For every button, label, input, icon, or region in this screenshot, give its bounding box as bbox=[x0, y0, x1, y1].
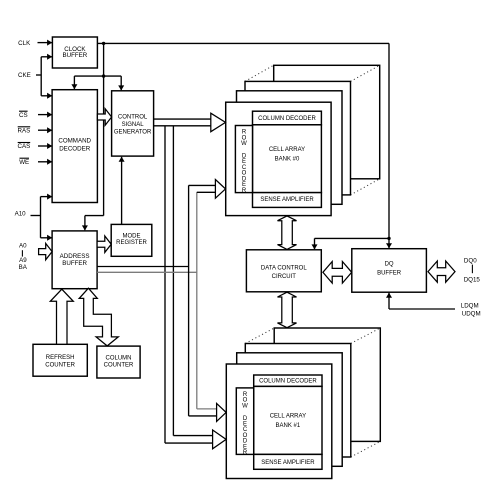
CLK wire bbox=[38, 42, 53, 44]
command decoder to CSG open arrow bbox=[97, 109, 111, 125]
svg-text:SENSE AMPLIFIER: SENSE AMPLIFIER bbox=[261, 460, 315, 466]
clock branch wire to command decoder and CSG bbox=[74, 75, 121, 77]
DQ buffer box bbox=[352, 249, 427, 293]
row decoder bank #1 bbox=[236, 388, 253, 455]
svg-text:BANK #0: BANK #0 bbox=[275, 157, 300, 163]
svg-text:REGISTER: REGISTER bbox=[116, 240, 147, 246]
svg-text:R: R bbox=[243, 450, 248, 456]
svg-text:DECODER: DECODER bbox=[59, 146, 90, 153]
clock vertical wire bbox=[103, 43, 105, 215]
data control circuit to DQ buffer hollow double arrow bbox=[323, 262, 352, 284]
svg-text:CELL ARRAY: CELL ARRAY bbox=[270, 414, 306, 420]
svg-text:RAS: RAS bbox=[18, 128, 31, 135]
svg-text:A0: A0 bbox=[19, 242, 27, 249]
svg-text:UDQM: UDQM bbox=[462, 310, 481, 317]
svg-text:BUFFER: BUFFER bbox=[63, 52, 88, 59]
junction dot clock branch bbox=[102, 74, 105, 77]
clock buffer box bbox=[52, 37, 97, 68]
svg-text:CAS: CAS bbox=[18, 143, 31, 150]
svg-text:W: W bbox=[242, 403, 248, 409]
mode register to CSG wire bbox=[121, 157, 123, 225]
clock net wire from clock buffer bbox=[97, 42, 389, 44]
address bus vertical bbox=[188, 185, 190, 416]
svg-text:DQ0: DQ0 bbox=[464, 257, 477, 264]
svg-text:SIGNAL: SIGNAL bbox=[122, 122, 145, 128]
refresh counter box bbox=[33, 344, 87, 376]
svg-text:CLK: CLK bbox=[18, 40, 31, 47]
cell array bank #1 stack layer 3 bbox=[245, 344, 350, 458]
column counter box bbox=[97, 346, 140, 378]
dotted 3D edge bank0 top-left bbox=[245, 65, 274, 81]
svg-text:COMMAND: COMMAND bbox=[58, 138, 91, 145]
svg-text:CS: CS bbox=[19, 112, 28, 119]
svg-text:CONTROL: CONTROL bbox=[118, 115, 148, 121]
svg-text:A9: A9 bbox=[19, 257, 27, 264]
cell array bank #1 bbox=[254, 386, 322, 454]
DQ buffer to DQ pins hollow double arrow bbox=[428, 261, 455, 282]
svg-text:COUNTER: COUNTER bbox=[45, 362, 75, 368]
CAS wire bbox=[38, 145, 52, 147]
svg-text:WE: WE bbox=[19, 159, 29, 166]
column decoder bank #1 bbox=[254, 375, 322, 386]
address buffer to column counter hollow arrow path bbox=[79, 288, 118, 346]
svg-text:GENERATOR: GENERATOR bbox=[114, 130, 152, 136]
svg-text:R: R bbox=[242, 188, 247, 194]
svg-text:W: W bbox=[241, 141, 247, 147]
address buffer box bbox=[52, 231, 97, 289]
cell array bank #0 bbox=[253, 125, 322, 193]
data control circuit to bank1 hollow double arrow bbox=[278, 292, 297, 328]
dotted 3D edge bank0 bottom-right bbox=[351, 179, 380, 195]
junction dot DQ clock node bbox=[387, 237, 390, 240]
refresh counter to address buffer hollow arrow bbox=[50, 289, 73, 344]
CKE wire bbox=[36, 74, 41, 76]
clock branch wire to data control circuit bbox=[315, 237, 390, 239]
svg-text:REFRESH: REFRESH bbox=[46, 355, 75, 361]
svg-text:LDQM: LDQM bbox=[461, 302, 479, 309]
address bus from address buffer bbox=[97, 266, 189, 268]
svg-text:COLUMN: COLUMN bbox=[105, 356, 131, 362]
command decoder box bbox=[52, 90, 97, 203]
sense amplifier bank #0 bbox=[253, 193, 322, 208]
WE wire bbox=[38, 161, 52, 163]
cell array bank #1 stack layer 2 bbox=[237, 353, 343, 467]
svg-text:BUFFER: BUFFER bbox=[377, 271, 402, 277]
svg-text:A10: A10 bbox=[15, 211, 27, 218]
cell array bank #0 back panel (3D) bbox=[274, 65, 380, 179]
address bus to bank0 row decoder arrow bbox=[189, 184, 216, 186]
A10 wire bbox=[31, 215, 41, 217]
CSG to bank0 row decoder bus bbox=[154, 118, 211, 120]
sense amplifier bank #1 bbox=[254, 454, 322, 469]
cell array bank #0 stack layer 2 bbox=[237, 91, 343, 205]
svg-text:BA: BA bbox=[19, 264, 28, 271]
address bus to bank1 row decoder arrow bbox=[189, 415, 217, 417]
dotted 3D edge bank0 top-right bbox=[351, 65, 380, 81]
cell array bank #0 stack layer 3 bbox=[245, 81, 351, 194]
dotted 3D edge bank1 top-right bbox=[351, 328, 381, 344]
bank0 to data control circuit hollow double arrow bbox=[278, 216, 297, 250]
junction dot clock node bbox=[102, 42, 105, 45]
svg-text:COLUMN DECODER: COLUMN DECODER bbox=[258, 116, 316, 122]
svg-text:CELL ARRAY: CELL ARRAY bbox=[269, 147, 305, 153]
svg-text:BUFFER: BUFFER bbox=[62, 260, 87, 267]
svg-text:DATA CONTROL: DATA CONTROL bbox=[261, 266, 307, 272]
cell array bank #1 back panel (3D) bbox=[274, 328, 380, 441]
svg-text:COLUMN DECODER: COLUMN DECODER bbox=[259, 379, 317, 385]
svg-text:CKE: CKE bbox=[18, 72, 31, 79]
mode register box bbox=[111, 224, 152, 256]
clock wire to address buffer bbox=[85, 215, 104, 217]
CSG bus vertical to bank1 bbox=[164, 126, 166, 443]
column decoder bank #0 bbox=[253, 111, 322, 125]
dotted 3D edge bank1 bottom-right bbox=[351, 441, 381, 457]
control signal generator box bbox=[112, 91, 154, 156]
cell array bank #1 front box bbox=[226, 364, 331, 479]
svg-text:SENSE AMPLIFIER: SENSE AMPLIFIER bbox=[260, 197, 314, 203]
DQM wire to DQ buffer bbox=[389, 308, 455, 310]
svg-text:DQ15: DQ15 bbox=[464, 277, 481, 284]
cell array bank #0 front box bbox=[226, 102, 331, 215]
address buffer to mode register open arrow bbox=[97, 236, 111, 252]
RAS wire bbox=[38, 129, 52, 131]
svg-text:DQ: DQ bbox=[385, 261, 394, 267]
CSG bus to bank1 row decoder arrow bbox=[165, 442, 213, 444]
data control circuit box bbox=[246, 250, 321, 292]
svg-text:COUNTER: COUNTER bbox=[104, 362, 134, 368]
A0-BA to address buffer open arrow bbox=[39, 243, 53, 259]
CS wire bbox=[38, 114, 52, 116]
clock right vertical wire bbox=[388, 43, 390, 248]
row decoder bank #0 bbox=[235, 126, 252, 193]
svg-text:BANK #1: BANK #1 bbox=[276, 423, 301, 429]
dotted 3D edge bank1 top-left bbox=[245, 328, 274, 344]
svg-text:CIRCUIT: CIRCUIT bbox=[272, 274, 297, 280]
svg-text:MODE: MODE bbox=[123, 233, 141, 239]
